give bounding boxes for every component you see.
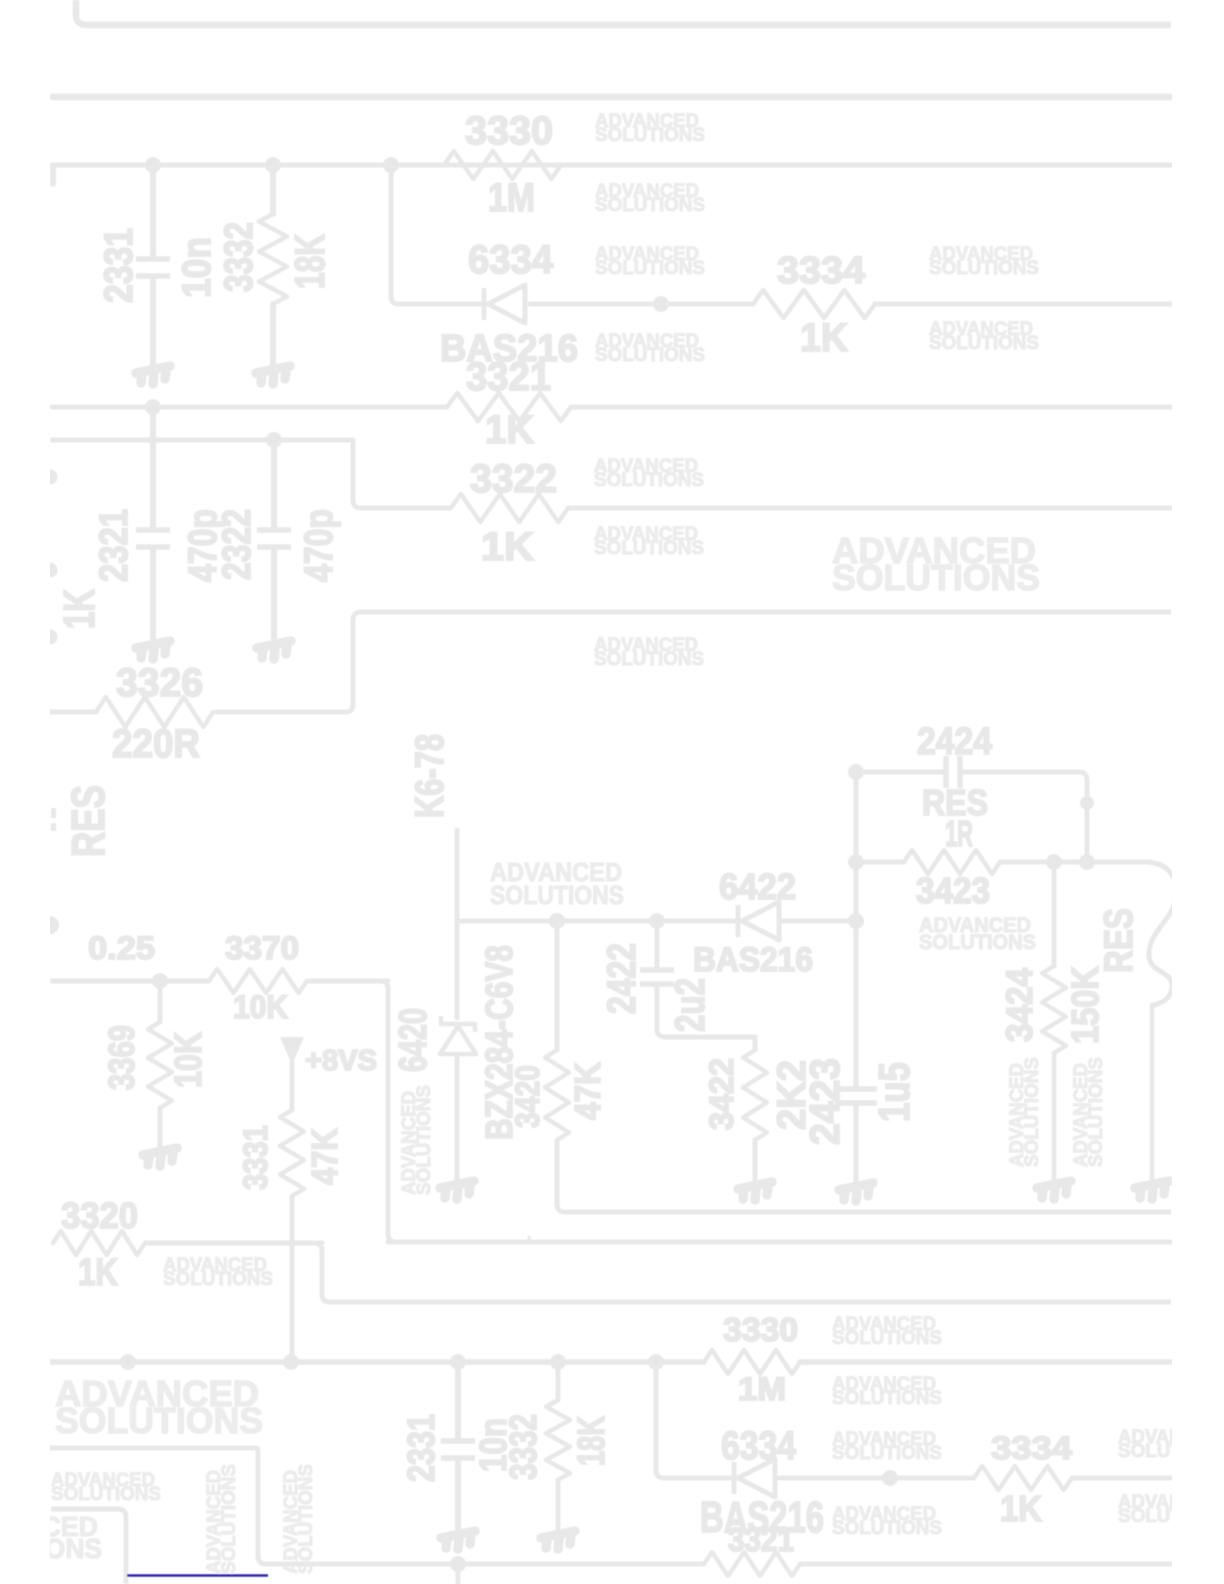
watermark — [594, 456, 704, 491]
resistor 3422 — [743, 1050, 767, 1140]
svg-text:0.25: 0.25 — [88, 930, 155, 966]
svg-text:SOLUTIONS: SOLUTIONS — [594, 649, 704, 670]
resistor 3332 top lead — [270, 165, 276, 214]
watermark — [832, 530, 1040, 598]
wire bus y=165 — [52, 163, 1171, 168]
wire y=304 middle segment — [530, 302, 753, 307]
left edge glyph fragment — [51, 823, 56, 831]
node junction (1087,862) — [1079, 854, 1095, 870]
left edge glyph fragment — [51, 808, 56, 818]
resistor 3424 bottom lead — [1052, 1053, 1057, 1182]
capacitor 2322 bottom lead — [271, 550, 277, 642]
svg-text:3423: 3423 — [916, 870, 990, 911]
capacitor 2331 (bottom) top lead — [455, 1362, 461, 1438]
svg-text:RES: RES — [1097, 908, 1141, 973]
svg-text:3330: 3330 — [465, 109, 553, 153]
watermark — [595, 181, 705, 216]
node junction (291,1362) — [283, 1354, 299, 1370]
svg-text:1u5: 1u5 — [870, 1062, 919, 1122]
wire y=1478 middle — [779, 1476, 974, 1481]
wire y=981 right — [307, 979, 388, 984]
svg-text:SOLUTIONS: SOLUTIONS — [296, 1464, 317, 1574]
svg-text:SOLUTIONS: SOLUTIONS — [832, 1328, 942, 1349]
wire bus y=407 right — [571, 405, 1171, 410]
svg-text:3326: 3326 — [116, 661, 203, 705]
svg-text:SOLUTIONS: SOLUTIONS — [594, 470, 704, 491]
svg-text:150K: 150K — [1065, 966, 1107, 1044]
resistor 3369 top lead — [158, 981, 163, 1022]
node half-dot at left edge — [41, 916, 59, 934]
watermark — [594, 635, 704, 670]
resistor 3321 — [447, 393, 571, 421]
svg-text:3332: 3332 — [217, 222, 261, 292]
node junction (558,1362) — [550, 1354, 566, 1370]
wire vertical from (391,165) to (391,304) and corner to diode — [391, 165, 484, 304]
watermark — [163, 1255, 273, 1290]
resistor 3332 (bottom) lower lead — [556, 1480, 561, 1532]
svg-text:3331: 3331 — [237, 1125, 275, 1190]
watermark — [929, 319, 1039, 354]
resistor 3420 bottom lead with corner to y=1212 — [557, 1140, 1171, 1212]
resistor 3422 bottom lead — [753, 1140, 758, 1183]
svg-text:18K: 18K — [571, 1416, 613, 1466]
svg-text:SOLUTIONS: SOLUTIONS — [595, 258, 705, 279]
svg-text:2422: 2422 — [600, 943, 644, 1014]
resistor 3370 — [209, 969, 307, 993]
resistor 3321 (bottom section) — [704, 1552, 800, 1576]
diode 6334 (bottom section) — [734, 1459, 775, 1497]
resistor 3369 — [148, 1022, 172, 1108]
ground for 2423 — [839, 1183, 873, 1201]
watermark — [595, 111, 705, 146]
watermark — [204, 1464, 240, 1574]
watermark — [929, 244, 1039, 279]
watermark — [399, 1085, 435, 1195]
svg-text:RES: RES — [62, 785, 114, 857]
node junction (656,1362) — [648, 1354, 664, 1370]
ground for 3332 — [256, 366, 290, 384]
svg-text:6334: 6334 — [468, 238, 554, 282]
node junction (153,407) — [145, 399, 161, 415]
capacitor 2331 top lead — [150, 165, 156, 256]
svg-text:SOLUTIONS: SOLUTIONS — [595, 345, 705, 366]
svg-text:2424: 2424 — [917, 721, 992, 763]
svg-text:SOLUTIONS: SOLUTIONS — [832, 1388, 942, 1409]
svg-text:1K: 1K — [800, 316, 848, 360]
resistor 3420 top lead — [555, 921, 560, 1050]
svg-text:1R: 1R — [945, 813, 973, 854]
node junction (1054,862) — [1046, 854, 1062, 870]
node junction (856,921) — [848, 913, 864, 929]
svg-text:2423: 2423 — [801, 1058, 848, 1145]
wire y=921 — [457, 919, 738, 924]
watermark — [0, 1511, 102, 1564]
node junction (856,772) — [848, 764, 864, 780]
svg-text:1K: 1K — [55, 589, 104, 629]
wire vertical x=1152 — [1150, 1005, 1155, 1182]
resistor 3320 — [53, 1231, 145, 1255]
watermark — [1118, 1492, 1224, 1527]
svg-text:3332: 3332 — [503, 1414, 545, 1480]
wire y=1242 — [388, 1240, 1171, 1245]
watermark — [281, 1464, 317, 1574]
ground for 2321 — [136, 641, 170, 659]
svg-text:2321: 2321 — [92, 509, 136, 582]
node junction (458,1564) — [450, 1556, 466, 1572]
svg-text:1K: 1K — [78, 1252, 118, 1294]
capacitor 2424 left lead — [856, 770, 946, 775]
svg-text:3330: 3330 — [723, 1311, 798, 1348]
wire diode to junction — [781, 919, 857, 924]
svg-text:3424: 3424 — [999, 968, 1040, 1042]
node via (1087,803) — [1080, 796, 1094, 810]
ground for 3332 (bottom) — [541, 1531, 575, 1549]
resistor 3423 — [904, 850, 1000, 874]
wire y=304 right segment — [875, 302, 1171, 307]
capacitor 2422 bottom lead and corner to 3422 — [657, 987, 755, 1037]
resistor 3331 bottom lead — [290, 1196, 295, 1362]
svg-text:3334: 3334 — [777, 250, 865, 292]
svg-text:2331: 2331 — [97, 228, 141, 303]
node junction (458,1362) — [450, 1354, 466, 1370]
wire bus y=1564 — [264, 1562, 704, 1567]
resistor 3369 bottom lead — [158, 1108, 163, 1149]
capacitor 2422 top lead — [655, 921, 660, 967]
svg-text:+8VS: +8VS — [305, 1045, 377, 1077]
ground for 6420 — [440, 1181, 474, 1199]
diode 6334 — [484, 285, 525, 323]
capacitor 2423 — [835, 1089, 877, 1103]
svg-text:SOLUTIONS: SOLUTIONS — [490, 880, 624, 910]
capacitor 2331 (bottom section) — [441, 1441, 475, 1458]
svg-text:SOLUTIONS: SOLUTIONS — [414, 1085, 435, 1195]
svg-text:220R: 220R — [112, 722, 200, 766]
svg-text:1K: 1K — [481, 525, 534, 569]
power +8VS triangle — [280, 1037, 304, 1065]
resistor 3334 (bottom section) — [974, 1466, 1072, 1490]
svg-text:47K: 47K — [567, 1062, 608, 1120]
svg-text:SOLUTIONS: SOLUTIONS — [929, 333, 1039, 354]
node junction (274,440) — [266, 432, 282, 448]
svg-text:SOLUTIONS: SOLUTIONS — [595, 195, 705, 216]
diode 6422 — [738, 902, 779, 940]
ground for 3424 — [1037, 1181, 1071, 1199]
node junction (273,165) — [265, 157, 281, 173]
resistor 3332 bottom lead — [270, 304, 276, 367]
svg-text:SOLUTIONS: SOLUTIONS — [219, 1464, 240, 1574]
watermark — [490, 857, 624, 910]
capacitor 2321 top lead — [150, 407, 156, 527]
svg-text:SOLUTIONS: SOLUTIONS — [1022, 1057, 1043, 1167]
watermark — [1118, 1427, 1224, 1462]
svg-text:3369: 3369 — [101, 1025, 142, 1090]
wire box corner bottom-left — [51, 1509, 126, 1584]
svg-text:3334: 3334 — [991, 1430, 1072, 1466]
node junction (557,921) — [549, 913, 565, 929]
svg-text:2322: 2322 — [215, 509, 259, 580]
capacitor 2422 — [640, 970, 674, 984]
watermark — [1007, 1057, 1043, 1167]
resistor 3423 left lead — [856, 860, 904, 865]
wire y=1448 — [51, 1446, 256, 1451]
wire bus y=407 left — [52, 405, 447, 410]
capacitor 2322 — [257, 530, 291, 547]
ground for 2322 — [257, 641, 291, 659]
svg-text:SOLUTIONS: SOLUTIONS — [163, 1269, 273, 1290]
watermark — [1071, 1057, 1107, 1167]
wire y=612 with corner down to y=712 — [215, 612, 1171, 712]
wire y=440 — [52, 438, 353, 443]
node junction (661,304) — [653, 296, 669, 312]
resistor 3330 — [444, 151, 561, 179]
wire y=1564 right — [800, 1562, 1171, 1567]
watermark — [919, 914, 1036, 954]
wire corner (353,440)-(353,508)-(451,508) — [353, 440, 451, 508]
capacitor 2424 right lead with corner down — [960, 772, 1087, 862]
svg-text:K6-78: K6-78 — [408, 734, 452, 818]
node junction (856,862) — [848, 854, 864, 870]
resistor 3322 — [451, 494, 568, 522]
svg-text:1M: 1M — [738, 1371, 786, 1407]
node junction (391,165) — [383, 157, 399, 173]
svg-text:10K: 10K — [168, 1032, 210, 1088]
capacitor 2321 bottom lead — [150, 550, 156, 642]
svg-text:3320: 3320 — [61, 1195, 138, 1236]
capacitor 2423 bottom lead — [854, 1105, 859, 1184]
svg-text:3370: 3370 — [225, 930, 299, 966]
wire vertical (656,1362)-(656,1478) with corner to diode — [656, 1362, 734, 1478]
wire y=508 right — [568, 506, 1171, 511]
ground for connector — [1135, 1181, 1169, 1199]
resistor 3424 — [1042, 966, 1066, 1053]
node junction (890,1478) — [882, 1470, 898, 1486]
wire horizontal bus y=97 — [52, 94, 1171, 101]
node half-dot at left edge — [43, 630, 58, 645]
wire stub (529,1237) — [528, 1237, 531, 1243]
node half-dot at left edge — [43, 470, 58, 485]
wire connector curve — [1148, 862, 1176, 1006]
zener 6420 bottom lead — [455, 1054, 460, 1182]
wire corner (322,1243)-(322,1302)-(1171,1302) — [314, 1243, 1171, 1302]
svg-text:SOLUTIONS: SOLUTIONS — [1086, 1057, 1107, 1167]
svg-text:BAS216: BAS216 — [693, 941, 813, 979]
watermark — [55, 1373, 263, 1441]
svg-text:470p: 470p — [297, 509, 341, 582]
svg-text:SOLUTIONS: SOLUTIONS — [832, 1443, 942, 1464]
wire y=1243 — [145, 1241, 322, 1246]
page border box — [76, 0, 1171, 25]
wire connector stub x=457 — [455, 830, 460, 1018]
svg-text:SOLUTIONS: SOLUTIONS — [55, 1400, 263, 1441]
watermark — [832, 1504, 942, 1539]
wire bus y=1362 — [51, 1359, 704, 1365]
resistor 3422 top lead — [753, 1037, 758, 1050]
svg-text:10n: 10n — [175, 237, 219, 298]
resistor 3424 top lead — [1052, 862, 1057, 966]
svg-text:3420: 3420 — [509, 1065, 547, 1128]
resistor 3331 — [280, 1110, 304, 1196]
resistor 3332 (bottom section) — [546, 1400, 570, 1480]
ground for 2331 — [136, 366, 170, 384]
svg-text:2u2: 2u2 — [666, 978, 713, 1032]
wire vertical x=856 — [854, 772, 859, 1086]
resistor 3331 top lead — [290, 1063, 295, 1110]
watermark — [595, 244, 705, 279]
watermark — [595, 331, 705, 366]
svg-text:SOLUTIONS: SOLUTIONS — [594, 538, 704, 559]
watermark — [594, 524, 704, 559]
resistor 3332 — [259, 214, 287, 304]
watermark — [832, 1374, 942, 1409]
wire corner (258,1448)-(258,1562) — [250, 1448, 266, 1564]
wire y=1362 right — [800, 1359, 1171, 1365]
wire y=981 left — [52, 979, 209, 984]
resistor 3420 — [545, 1050, 569, 1140]
ground for 2331 (bottom) — [441, 1531, 475, 1549]
node junction (153,165) — [145, 157, 161, 173]
svg-text:SOLUTIONS: SOLUTIONS — [595, 125, 705, 146]
capacitor 2321 — [136, 530, 170, 547]
wire stub left end — [50, 167, 56, 184]
zener diode 6420 — [440, 1016, 476, 1054]
wire vertical below (458,1564) — [456, 1564, 461, 1584]
node junction (128,1362) — [120, 1354, 136, 1370]
svg-text:10K: 10K — [233, 989, 288, 1025]
capacitor 2331 — [136, 259, 170, 276]
watermark — [832, 1429, 942, 1464]
svg-text:6420: 6420 — [392, 1008, 435, 1072]
svg-text:6334: 6334 — [721, 1424, 797, 1468]
svg-text:3422: 3422 — [703, 1058, 741, 1130]
svg-text:1K: 1K — [485, 408, 534, 452]
svg-text:1M: 1M — [488, 176, 535, 220]
svg-text:1K: 1K — [1000, 1488, 1042, 1529]
svg-text:47K: 47K — [304, 1128, 345, 1185]
svg-text:SOLUTIONS: SOLUTIONS — [929, 258, 1039, 279]
wire y=862 right — [1000, 860, 1150, 865]
resistor 3326 — [96, 697, 213, 727]
capacitor 2331 (bottom) lower lead — [455, 1461, 461, 1532]
capacitor 2322 top lead — [271, 440, 277, 527]
resistor 3334 — [753, 290, 875, 318]
svg-text:SOLUTIONS: SOLUTIONS — [51, 1484, 161, 1505]
node half-dot at left edge — [43, 563, 58, 578]
ground for 3422 — [738, 1182, 772, 1200]
node junction (160,981) — [152, 973, 168, 989]
hyperlink underline (blue) — [127, 1574, 268, 1577]
capacitor 2424 — [946, 756, 960, 788]
svg-text:18K: 18K — [286, 234, 333, 289]
wire corner vertical x=388 down to y=1242 — [380, 981, 396, 1242]
svg-text:2331: 2331 — [401, 1414, 443, 1482]
svg-text:SOLUTIONS: SOLUTIONS — [832, 557, 1040, 598]
watermark — [832, 1314, 942, 1349]
svg-text:3321: 3321 — [728, 1521, 794, 1558]
svg-text:SOLUTIONS: SOLUTIONS — [919, 931, 1036, 954]
resistor 3330 (bottom section) — [704, 1350, 800, 1374]
watermark — [51, 1470, 161, 1505]
svg-text:3322: 3322 — [470, 457, 557, 501]
svg-text:SOLUTIONS: SOLUTIONS — [832, 1518, 942, 1539]
ground for 3369 — [143, 1148, 177, 1166]
wire y=1478 right — [1072, 1476, 1171, 1481]
capacitor 2331 bottom lead — [150, 279, 156, 367]
node junction (657,921) — [649, 913, 665, 929]
svg-text:6422: 6422 — [719, 866, 796, 907]
wire y=712 left stub — [51, 710, 96, 715]
resistor 3332 (bottom) top lead — [556, 1362, 561, 1400]
